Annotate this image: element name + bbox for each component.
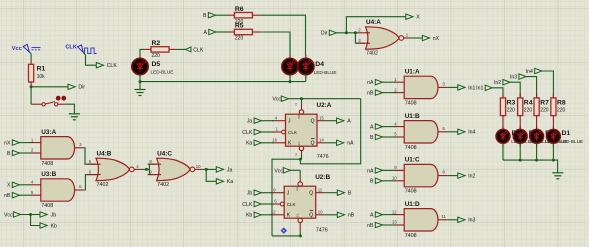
wire X to U3:B <box>20 184 32 186</box>
wire Vcc to Jb <box>21 214 41 216</box>
wire Ka to K <box>261 142 273 144</box>
pin R4 bottom <box>519 116 521 130</box>
wire U4:B out <box>142 168 150 170</box>
wire nA to U1:C <box>383 169 396 171</box>
wire nX to U3:A <box>20 142 32 144</box>
terminal nA (U2:A Qb) <box>337 140 354 147</box>
svg-text:In4: In4 <box>526 69 533 75</box>
terminal CLK (source) <box>96 63 117 70</box>
terminal nX (U3:A in1) <box>4 140 19 147</box>
switch SW1 <box>31 102 64 106</box>
svg-text:CLK: CLK <box>242 202 253 208</box>
svg-text:7402: 7402 <box>97 182 109 188</box>
svg-text:U1:D: U1:D <box>405 201 420 208</box>
svg-text:CLK: CLK <box>107 63 118 69</box>
svg-text:12: 12 <box>271 210 276 215</box>
marker (blue diamond) <box>281 227 288 234</box>
svg-text:A: A <box>370 213 374 219</box>
svg-text:A: A <box>204 30 208 36</box>
led D5 <box>132 55 174 78</box>
svg-text:Q: Q <box>311 141 315 147</box>
svg-text:U3:A: U3:A <box>41 129 56 136</box>
pin R8 top <box>552 94 554 98</box>
wire switch to ground <box>64 104 74 113</box>
wire U1:A out <box>448 86 459 88</box>
terminal Dir (input) <box>321 30 337 37</box>
power source VCC <box>12 44 41 52</box>
resistor R8 <box>551 98 566 116</box>
wire U2:B set pin <box>299 177 301 182</box>
wire set pin to Vcc rail <box>301 99 303 104</box>
svg-text:CL: CL <box>296 213 300 217</box>
svg-text:U1:A: U1:A <box>405 68 420 75</box>
terminal nX <box>422 35 439 42</box>
resistor R7 <box>534 98 549 116</box>
switch state dots <box>56 96 66 101</box>
svg-text:nB: nB <box>367 223 374 229</box>
and-gate U3:A <box>31 129 85 167</box>
junction U4:A inputs <box>354 31 357 34</box>
junction D3/bus <box>289 80 292 83</box>
terminal nA (U1:A in1) <box>367 80 382 87</box>
wire A to U1:B <box>383 126 396 128</box>
led D8 <box>530 126 568 147</box>
and-gate U1:A <box>394 68 448 106</box>
wire In4 to R8 <box>542 71 554 98</box>
pin R7 top <box>536 94 538 98</box>
wire nB to U1:A <box>383 92 396 94</box>
wire Ja to J <box>261 120 273 122</box>
terminal Jb (U2:B J) <box>247 190 261 197</box>
svg-text:U2:A: U2:A <box>317 102 332 109</box>
wire D5 to ground bus <box>139 75 141 82</box>
junction rail 4 <box>552 159 555 162</box>
wire U1:B out <box>448 131 459 133</box>
wire U4:A out <box>411 37 423 39</box>
svg-text:R4: R4 <box>524 99 533 106</box>
svg-text:Q: Q <box>311 119 315 125</box>
svg-text:B: B <box>7 151 11 157</box>
wire B to U3:A <box>20 152 32 154</box>
svg-text:7408: 7408 <box>41 203 53 209</box>
wire In3 to R7 <box>526 77 537 98</box>
pin R1 bottom <box>30 82 32 86</box>
svg-text:In2: In2 <box>494 80 501 86</box>
svg-text:nB: nB <box>348 213 355 219</box>
svg-text:14: 14 <box>319 138 324 143</box>
wire U1:D out <box>448 219 459 221</box>
svg-text:Vcc: Vcc <box>272 97 281 103</box>
wire U2:A clr pin <box>301 151 303 155</box>
wire U4:C out <box>202 168 216 170</box>
svg-text:U2:B: U2:B <box>315 174 330 181</box>
svg-text:X: X <box>416 15 420 21</box>
wire ground bus <box>140 81 306 83</box>
resistor R4 <box>518 98 533 116</box>
wire Vcc to U2:B set <box>299 170 301 177</box>
nor-gate U4:C <box>148 150 203 188</box>
wire CLK source to tag <box>84 53 98 65</box>
svg-text:CLK: CLK <box>288 130 298 135</box>
terminal B (top) <box>203 13 215 20</box>
svg-text:nA: nA <box>347 141 354 147</box>
wire R6 to D4 <box>260 15 306 55</box>
and-gate U1:D <box>392 201 448 239</box>
pin R3 top <box>502 94 504 98</box>
terminal In1 (U1:A out) <box>458 85 476 92</box>
svg-text:LED-BLUE: LED-BLUE <box>314 70 337 75</box>
terminal In3 (to R7) <box>510 74 526 81</box>
svg-text:nB: nB <box>367 91 374 97</box>
svg-text:CL: CL <box>297 141 301 145</box>
svg-text:220: 220 <box>540 108 549 114</box>
svg-text:220: 220 <box>235 36 244 42</box>
wire Jb to J <box>261 192 272 194</box>
terminal Ja <box>216 167 232 174</box>
svg-text:Ja: Ja <box>227 167 233 173</box>
wire led2 to rail <box>519 143 521 160</box>
junction Jb/Kb <box>29 213 32 216</box>
wire Vcc to set <box>291 169 301 171</box>
terminal A (top) <box>204 29 216 36</box>
svg-text:B: B <box>370 179 374 185</box>
pin R7 bottom <box>536 116 538 130</box>
svg-text:R5: R5 <box>235 23 244 30</box>
svg-text:2: 2 <box>295 103 297 107</box>
svg-text:U1:B: U1:B <box>405 113 420 120</box>
svg-text:Vcc: Vcc <box>12 46 22 52</box>
wire nB to U3:B <box>20 194 32 196</box>
terminal In3 (U1:D out) <box>458 217 476 224</box>
terminal Jb <box>40 212 56 219</box>
wire B to R6 <box>216 14 228 16</box>
svg-text:220: 220 <box>557 108 566 114</box>
svg-text:D4: D4 <box>315 61 324 68</box>
svg-text:B: B <box>370 135 374 141</box>
svg-text:10: 10 <box>318 210 323 215</box>
terminal B (U1:B in2) <box>370 134 382 141</box>
svg-text:B: B <box>203 13 207 19</box>
wire clr pin to net2 <box>299 231 301 236</box>
junction U2:B clr <box>299 234 302 237</box>
svg-text:Dir: Dir <box>78 85 85 91</box>
and-gate U1:C <box>392 157 448 195</box>
svg-text:U3:B: U3:B <box>41 171 56 178</box>
wire Vcc set rail <box>289 98 361 100</box>
terminal A (U1:D in1) <box>370 212 382 219</box>
junction clr net <box>299 158 302 161</box>
wire VCC to R1 <box>29 53 32 61</box>
terminal B (U1:C in2) <box>370 178 382 185</box>
svg-text:10: 10 <box>392 176 397 181</box>
terminal X (U3:B in1) <box>7 182 19 189</box>
wire D3 to bus <box>289 75 291 82</box>
svg-text:B: B <box>348 191 352 197</box>
led D4 <box>298 55 337 78</box>
svg-text:nA: nA <box>367 80 374 86</box>
junction Ja/Ka <box>205 168 208 171</box>
svg-text:R6: R6 <box>235 6 244 13</box>
svg-text:CLK: CLK <box>242 130 253 136</box>
svg-text:10k: 10k <box>37 74 46 80</box>
wire to Ka <box>206 169 216 181</box>
wire nB to U1:D <box>383 224 396 226</box>
terminal In4 (U1:B out) <box>458 129 476 136</box>
svg-text:Ka: Ka <box>246 141 252 147</box>
wire U3:B to U4:B pin6 <box>85 175 97 190</box>
svg-text:11: 11 <box>318 187 323 192</box>
svg-text:U1:C: U1:C <box>405 157 420 164</box>
terminal In1 (to R3) <box>476 85 492 92</box>
resistor R6 <box>227 6 259 25</box>
svg-text:13: 13 <box>392 220 397 225</box>
jk-flip-flop U2:A <box>272 102 332 160</box>
junction D5/ground bus <box>139 80 142 83</box>
svg-text:D1: D1 <box>562 130 571 137</box>
svg-text:Kb: Kb <box>246 213 252 219</box>
junction rail 3 <box>535 159 538 162</box>
svg-text:R1: R1 <box>37 66 46 73</box>
svg-text:U4:C: U4:C <box>157 150 172 157</box>
terminal VCC (U2:B set) <box>274 168 290 175</box>
svg-text:In1: In1 <box>476 86 483 92</box>
wire R2 to D5 <box>140 49 144 55</box>
terminal nA (U1:C in1) <box>367 168 382 175</box>
wire led1 to rail <box>502 143 504 160</box>
svg-text:7408: 7408 <box>405 100 417 106</box>
svg-text:In2: In2 <box>468 174 475 180</box>
and-gate U1:B <box>394 113 448 151</box>
resistor R3 <box>500 98 515 116</box>
wire clr net down <box>272 159 300 236</box>
terminal A (U2:A Q) <box>337 118 352 125</box>
wire D4 to bus <box>305 75 307 82</box>
wire Qb to nA <box>326 142 337 144</box>
svg-text:nB: nB <box>4 193 11 199</box>
terminal nB (U1:D in2) <box>367 222 382 229</box>
clock source CLK <box>65 45 96 54</box>
wire R5 to D3 <box>260 32 291 56</box>
svg-text:220: 220 <box>152 53 161 59</box>
terminal nB (U2:B Qb) <box>337 212 354 219</box>
wire nA to U1:A <box>383 81 396 83</box>
wire to Kb <box>31 215 41 226</box>
junction set pin <box>300 97 303 100</box>
junction U4:C inputs <box>145 168 148 171</box>
pin R3 bottom <box>502 116 504 130</box>
wire CLK to U2:A <box>261 131 273 133</box>
terminal VCC (Jb/Kb) <box>4 212 21 219</box>
and-gate U3:B <box>31 171 85 209</box>
wire Qb to nB <box>325 214 338 216</box>
terminal CLK (U2:A) <box>242 129 261 136</box>
wire U3:A to U4:B pin5 <box>84 148 96 164</box>
led D1 <box>547 126 584 147</box>
svg-text:CLK: CLK <box>287 202 297 207</box>
wire Q to A <box>326 120 337 122</box>
wire to X tag <box>346 17 406 33</box>
terminal X <box>406 14 420 21</box>
wire to Dir tag <box>31 86 68 88</box>
svg-text:15: 15 <box>319 115 324 120</box>
wire set/clr loop <box>300 99 360 164</box>
svg-text:7408: 7408 <box>405 145 417 151</box>
wire bus to ground <box>139 82 141 90</box>
svg-text:In1: In1 <box>468 85 475 91</box>
terminal In4 (to R8) <box>526 68 542 75</box>
wire U2:B clr pin <box>299 223 301 231</box>
svg-text:D5: D5 <box>152 61 161 68</box>
svg-text:7408: 7408 <box>405 233 417 239</box>
wire R2 to CLK tag <box>176 48 185 50</box>
svg-text:7476: 7476 <box>316 228 328 234</box>
wire In2 to R4 <box>510 82 520 98</box>
svg-text:Ka: Ka <box>227 179 233 185</box>
junction Dir/X <box>345 31 348 34</box>
svg-text:Jb: Jb <box>247 191 253 197</box>
svg-text:Vcc: Vcc <box>274 168 283 174</box>
led D3 <box>282 55 298 78</box>
wire U4:A pin3 <box>355 33 365 43</box>
junction rail 2 <box>519 159 522 162</box>
svg-text:nA: nA <box>367 168 374 174</box>
svg-text:Vcc: Vcc <box>4 212 13 218</box>
terminal Dir (source) <box>68 84 85 91</box>
jk-flip-flop U2:B <box>271 174 331 233</box>
svg-text:R2: R2 <box>152 40 161 47</box>
wire clr to net <box>272 235 300 237</box>
ground (LED bus) <box>135 90 146 96</box>
svg-text:7408: 7408 <box>41 161 53 167</box>
terminal CLK (input, left) <box>185 47 204 53</box>
wire In1 to R3 <box>492 88 503 98</box>
svg-text:In3: In3 <box>510 75 517 81</box>
wire to U4:C pin8 <box>149 164 156 169</box>
svg-text:3: 3 <box>295 153 297 157</box>
svg-text:In4: In4 <box>468 130 475 136</box>
svg-text:CLK: CLK <box>65 45 77 51</box>
ground (LED rail) <box>552 173 563 179</box>
wire A to R5 <box>216 31 228 33</box>
ground (switch) <box>69 114 80 120</box>
resistor R1 <box>29 64 46 82</box>
terminal nB (U1:A in2) <box>367 90 382 97</box>
svg-text:U4:B: U4:B <box>97 150 112 157</box>
svg-text:LED-BLUE: LED-BLUE <box>151 69 174 74</box>
pin R4 top <box>519 94 521 98</box>
svg-text:LED-BLUE: LED-BLUE <box>560 139 583 144</box>
terminal Ka <box>216 179 233 186</box>
wire clr pin to net <box>301 155 303 159</box>
wire Kb to K <box>261 214 272 216</box>
svg-text:Ja: Ja <box>247 119 253 125</box>
pin R1 top <box>30 60 32 64</box>
terminal A (U1:B in1) <box>370 124 382 131</box>
svg-text:R7: R7 <box>540 99 549 106</box>
terminal Kb <box>40 223 57 230</box>
resistor R5 <box>227 23 259 42</box>
terminal Ja (U2:A J) <box>247 118 261 125</box>
wire Q to B <box>325 192 338 194</box>
wire U2:A set pin <box>301 104 303 110</box>
svg-text:U4:A: U4:A <box>366 19 381 26</box>
terminal CLK (U2:B) <box>242 201 261 208</box>
svg-text:220: 220 <box>507 108 516 114</box>
svg-text:7408: 7408 <box>405 189 417 195</box>
led D6 <box>496 126 534 147</box>
wire led3 to rail <box>536 143 538 160</box>
pin R8 bottom <box>552 116 554 130</box>
wire U1:C out <box>448 175 459 177</box>
svg-text:In3: In3 <box>468 218 475 224</box>
wire A to U1:D <box>383 214 396 216</box>
svg-text:nX: nX <box>4 141 11 147</box>
wire B to U1:C <box>383 180 396 182</box>
terminal VCC (U2:A set/clr) <box>272 96 288 103</box>
terminal nB (U3:B in2) <box>4 193 19 200</box>
terminal B (U2:B Q) <box>337 190 352 197</box>
svg-text:Dir: Dir <box>321 31 328 37</box>
wire rail to ground <box>503 160 558 173</box>
svg-text:10: 10 <box>196 164 201 169</box>
svg-text:7402: 7402 <box>366 51 378 57</box>
resistor R2 <box>144 40 176 59</box>
svg-text:Kb: Kb <box>51 223 57 229</box>
terminal In2 (to R4) <box>494 80 510 87</box>
junction R1/Dir <box>30 85 33 88</box>
terminal B (U3:A in2) <box>7 150 19 157</box>
svg-text:A: A <box>347 119 351 125</box>
wire Dir to U4:A <box>337 32 357 34</box>
terminal Kb (U2:B K) <box>246 212 261 219</box>
terminal In2 (U1:C out) <box>458 173 476 180</box>
svg-text:220: 220 <box>524 108 533 114</box>
nor-gate U4:A <box>357 19 412 57</box>
svg-text:R8: R8 <box>557 99 566 106</box>
wire led4 to rail <box>552 143 554 160</box>
wire CLK to U2:B <box>261 203 272 205</box>
svg-text:12: 12 <box>392 209 397 214</box>
wire to U4:C pin9 <box>149 169 156 174</box>
svg-text:Jb: Jb <box>51 212 57 218</box>
svg-text:CLK: CLK <box>193 47 204 53</box>
svg-text:A: A <box>370 125 374 131</box>
svg-text:Q: Q <box>309 213 313 219</box>
svg-text:16: 16 <box>272 138 277 143</box>
wire B to U1:B <box>383 136 396 138</box>
svg-text:Q: Q <box>309 191 313 197</box>
svg-text:nX: nX <box>433 36 440 42</box>
wire R1 to switch <box>30 86 32 104</box>
nor-gate U4:B <box>87 150 142 188</box>
svg-text:7476: 7476 <box>317 154 329 160</box>
svg-text:X: X <box>7 183 11 189</box>
svg-text:7402: 7402 <box>157 182 169 188</box>
led D7 <box>513 126 551 147</box>
svg-text:R3: R3 <box>507 99 516 106</box>
svg-text:11: 11 <box>441 214 446 219</box>
terminal Ka (U2:A K) <box>246 140 261 147</box>
